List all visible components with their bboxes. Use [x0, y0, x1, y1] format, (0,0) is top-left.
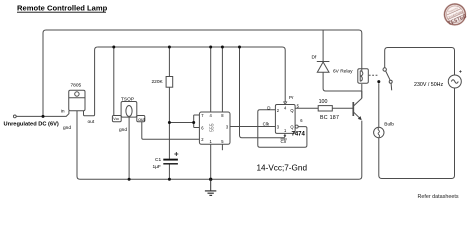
svg-text:out: out	[88, 119, 95, 125]
IR receiver TSOP	[112, 102, 144, 122]
svg-text:in: in	[61, 109, 65, 115]
svg-text:Clr: Clr	[281, 139, 287, 144]
svg-text:Vcc: Vcc	[113, 117, 119, 121]
wire TSOP gnd	[128, 117, 130, 179]
wire 555 pin1 to ground	[210, 144, 212, 179]
junction dot input	[42, 115, 45, 118]
wire 7805 out to Vcc rail	[84, 47, 98, 116]
junction dot pins 6-7 tie	[192, 121, 195, 124]
svg-text:14-Vcc;7-Gnd: 14-Vcc;7-Gnd	[257, 164, 308, 173]
regulator 7805	[69, 90, 85, 111]
ground	[205, 179, 216, 195]
flip-flop IC 7474	[275, 105, 295, 134]
wire 555 pin5 stub	[221, 144, 223, 150]
wire 555 pin3 to 7474 Clk	[230, 126, 275, 128]
relay K1	[358, 69, 369, 84]
wire TSOP vcc	[113, 47, 115, 116]
Pr arrowhead (7474 pin4)	[284, 102, 287, 105]
svg-text:gnd: gnd	[63, 125, 71, 131]
svg-text:Df: Df	[312, 55, 317, 61]
wire 7474 Qbar to D feedback loop	[258, 110, 307, 148]
op timer IC 555	[199, 112, 230, 144]
wire 100 resistor to base	[332, 107, 353, 109]
svg-text:7805: 7805	[71, 82, 82, 88]
svg-text:gnd: gnd	[119, 127, 127, 133]
junction dot 220K on rail	[168, 46, 171, 49]
tested stamp	[441, 1, 468, 28]
svg-text:Q: Q	[290, 125, 293, 130]
wire switch top to AC loop	[385, 48, 455, 76]
wire 555 pin4 to Vcc	[210, 47, 212, 112]
svg-text:Clk: Clk	[263, 121, 270, 126]
AC polarity mark	[459, 70, 461, 72]
wire diode column top	[322, 30, 324, 61]
wire 7474 Clr stub	[284, 133, 286, 135]
transistor Q1 BC187	[353, 91, 362, 119]
junction dot 555 pin4 on rail	[209, 46, 212, 49]
wire relay bottom to collector	[361, 84, 363, 98]
svg-text:Pr: Pr	[289, 95, 294, 100]
wire 555 pin8 to Vcc	[221, 47, 223, 112]
svg-text:Q: Q	[290, 108, 293, 113]
svg-text:100: 100	[319, 99, 328, 105]
diode Df	[317, 62, 330, 73]
junction dot 220K-C1	[168, 121, 171, 124]
svg-text:Remote Controlled Lamp: Remote Controlled Lamp	[17, 3, 108, 12]
svg-text:6V Relay: 6V Relay	[333, 68, 353, 74]
junction dot C1 on rail	[168, 178, 171, 181]
wire 220K top	[168, 47, 170, 77]
wire 555 pins 6-7 tie	[169, 115, 199, 128]
wire unregulated 6V rail	[43, 30, 362, 116]
svg-text:BC 187: BC 187	[320, 115, 339, 121]
wire 7805 gnd to ground rail	[77, 111, 362, 180]
Clr arrowhead (7474 pin1)	[284, 135, 287, 137]
wire Vcc to 7474 Clr	[240, 47, 285, 138]
junction dot TSOP vcc on rail	[112, 46, 115, 49]
wire input to 7805 in	[16, 111, 69, 117]
svg-text:220K: 220K	[152, 79, 164, 85]
junction dot TSOP gnd on rail	[128, 178, 131, 181]
capacitor C1	[163, 160, 178, 164]
svg-text:Unregulated DC (6V): Unregulated DC (6V)	[4, 122, 59, 128]
AC source 230V	[448, 75, 461, 88]
switch contact	[383, 68, 392, 91]
emitter arrow	[358, 116, 362, 120]
svg-text:1µF: 1µF	[153, 164, 161, 170]
polarity plus C1	[174, 152, 178, 156]
wire 7474 Q to 100 resistor	[295, 107, 318, 109]
wire AC source bottom loop to bulb	[379, 88, 455, 179]
wire C1 to ground rail	[168, 164, 170, 179]
wire diode bottom to relay bottom	[323, 72, 362, 91]
junction dot 555 pin8 on rail	[221, 46, 224, 49]
bulb	[374, 127, 384, 137]
svg-text:out: out	[138, 117, 145, 123]
junction dot Clr column on rail	[238, 46, 241, 49]
svg-text:TSOP: TSOP	[121, 97, 134, 103]
input terminal circle	[13, 115, 16, 118]
svg-text:230V / 50Hz: 230V / 50Hz	[414, 82, 444, 88]
svg-text:Refer datasheets: Refer datasheets	[418, 194, 459, 200]
wire 220K bottom to C1	[168, 87, 170, 159]
svg-text:555: 555	[210, 123, 216, 132]
resistor 220K	[166, 77, 173, 88]
resistor 100	[318, 106, 332, 111]
Qbar bubble (7474)	[295, 125, 298, 128]
svg-text:Bulb: Bulb	[384, 121, 394, 127]
switch terminal dot	[377, 80, 380, 83]
wire bulb to switch terminal	[378, 83, 380, 127]
relay dashed link	[369, 74, 378, 76]
junction dot 555 pin1 ground node	[209, 178, 212, 181]
svg-text:C1: C1	[155, 157, 161, 163]
wire TSOP out to 555 pin2	[142, 122, 200, 140]
svg-text:7474: 7474	[292, 132, 306, 138]
wire Vcc rail	[98, 47, 286, 102]
